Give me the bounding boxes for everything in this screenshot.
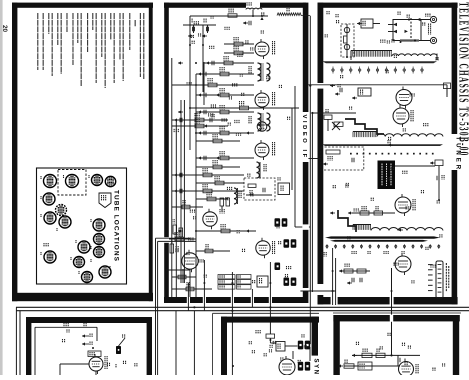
- tube V401 sync sep: [279, 356, 295, 378]
- tube location note (107): [44, 243, 48, 247]
- tube locations chart border: [37, 168, 127, 284]
- resistor R20 near right border: [444, 83, 451, 97]
- fine tuner plate lower: [330, 240, 428, 242]
- connector pair P1: [298, 341, 310, 350]
- VIDEO IF section border: [164, 3, 308, 303]
- capacitor C1 with ground: [243, 21, 251, 25]
- tube V103 3rd IF amp: [255, 140, 269, 160]
- tube location V9 6AW8: [94, 234, 105, 245]
- connector pair P2: [298, 362, 310, 371]
- coil L2 box: [357, 19, 380, 28]
- tube V106 video amp: [256, 238, 270, 258]
- arrow test point at coil L1: [260, 8, 289, 20]
- wire tube leads: [60, 364, 96, 375]
- sync clipper network: [276, 342, 298, 352]
- tuner corner labels: [327, 11, 338, 17]
- osc coil L1C wound section: [353, 225, 371, 230]
- horizontal section thin outline: [333, 312, 461, 314]
- tube location V11 5U8: [94, 247, 105, 258]
- tube V102 2nd IF amp: [255, 90, 269, 110]
- misc tuner grounds: [330, 84, 403, 232]
- horizontal box row 1: [352, 349, 420, 358]
- arrow feed +140V: [82, 334, 92, 338]
- wire heater into horizontal box: [390, 315, 393, 322]
- tube V105 audio output: [182, 250, 198, 272]
- component row 11 (resistor/capacitor network): [196, 126, 254, 135]
- component row 14 (resistor/capacitor network): [196, 160, 240, 169]
- TUNER section border: [318, 3, 458, 305]
- tube location crystal Y1: [105, 176, 115, 186]
- component row 19 (resistor/capacitor network): [196, 224, 256, 233]
- sync section thin outline: [213, 313, 319, 375]
- tube V104 sound IF: [203, 209, 217, 229]
- wire gutter bus left of VIDEO IF: [156, 238, 158, 375]
- svg-text:20: 20: [1, 25, 8, 33]
- component row 8 (resistor/capacitor network): [196, 105, 254, 114]
- capacitor C2 to ground: [188, 19, 195, 38]
- IF transformer T2: [249, 113, 270, 131]
- black terminal M3: [275, 263, 281, 271]
- AGC dashed box: [321, 147, 364, 170]
- scattered value labels bottom boxes: [62, 329, 444, 370]
- quadrature coil module Z1: [278, 183, 290, 195]
- tube location V7 4BQ7: [59, 216, 71, 228]
- test point connector pair M4: [284, 278, 297, 286]
- wire gap in border at y227: [302, 224, 309, 229]
- tuner part-number plate (black): [378, 161, 396, 190]
- component row 16 (resistor/capacitor network): [196, 176, 244, 185]
- component row 5 (resistor/capacitor network): [172, 78, 254, 87]
- wire gutter bus right of VIDEO IF: [292, 16, 314, 344]
- notes panel border frame: [12, 3, 153, 302]
- resistor R1 1K (top): [228, 9, 237, 18]
- component row 15 (resistor/capacitor network): [172, 168, 244, 177]
- sound takeoff dashed box: [244, 178, 275, 200]
- volume control R130: [170, 240, 178, 253]
- channel strip bar 1B: [322, 140, 443, 146]
- tube location V5 (dashed) 3DT6: [56, 205, 67, 216]
- channel labels under contacts: [352, 251, 404, 254]
- wire drops to bottom boxes: [176, 303, 270, 375]
- tube V102B triode section: [257, 122, 267, 132]
- component row 13 (resistor/capacitor network): [196, 151, 254, 160]
- tube location V3 3AU6: [92, 175, 103, 186]
- component row 7 (resistor/capacitor network): [190, 101, 299, 110]
- tube locations dashed sub-box: [58, 170, 86, 196]
- component row 3 (resistor/capacitor network): [204, 56, 254, 65]
- scattered value labels tuner: [325, 14, 442, 284]
- resistor R25: [430, 160, 443, 200]
- oscillator injection staircase wire: [345, 119, 384, 134]
- wire IF output from tuner to VIDEO IF: [308, 83, 447, 95]
- antenna terminal J1: [401, 16, 437, 22]
- junction dots sprinkled: [92, 15, 440, 367]
- audio output section border: [26, 317, 152, 375]
- bottom section outer rail (double line): [16, 307, 469, 375]
- oscillator staircase wire: [338, 210, 356, 232]
- tuner bottom border wire gaps: [331, 297, 394, 305]
- tube location V6 3CB6: [44, 212, 56, 224]
- component row 17 (resistor/capacitor network): [172, 184, 244, 193]
- tube location pointer label (hex): [99, 193, 111, 208]
- wire jogs through left border at y239: [156, 237, 197, 243]
- osc coil L1C loops: [371, 228, 443, 231]
- scattered value labels video IF: [174, 12, 291, 283]
- wire sync to connector: [293, 347, 310, 361]
- components in matching box: [344, 24, 350, 57]
- component row 10 (resistor/capacitor network): [172, 119, 228, 128]
- label tuner terminal guide: [446, 263, 448, 292]
- tube V203 oscillator: [395, 194, 411, 216]
- IF transformer T3: [257, 162, 267, 178]
- B+ bus wires: [172, 25, 204, 297]
- svg-text:VIDEO IF: VIDEO IF: [301, 115, 307, 160]
- 4.5MC trap module: [257, 276, 268, 287]
- component row 18 (resistor/capacitor network): [196, 192, 228, 201]
- sync section border: [221, 317, 319, 375]
- resistor R301 boxed: [88, 351, 101, 357]
- coil L1 top-center straddling border: [246, 2, 262, 16]
- fine tuning capacitor C25: [437, 175, 444, 180]
- antenna matching dashed box: [341, 24, 354, 57]
- components inside sound takeoff: [246, 184, 272, 195]
- wire heater drop to sync box: [391, 268, 393, 355]
- shield pin row: [332, 67, 423, 74]
- capacitor C401: [398, 355, 400, 366]
- junction dots on rail: [193, 306, 271, 312]
- test point connector pair M1: [275, 218, 288, 226]
- tube V301 audio output: [89, 354, 103, 374]
- wire AGC top feed: [190, 16, 268, 150]
- arrow feed to output: [82, 342, 92, 346]
- capacitor C3 to ground: [202, 19, 209, 38]
- svg-text:TELEVISION CHASSIS TS-530B-00: TELEVISION CHASSIS TS-530B-00: [456, 2, 469, 157]
- balun transformer T1A: [388, 12, 421, 43]
- tube location V8 5AT8: [93, 219, 105, 231]
- wire plate to R25: [395, 165, 435, 167]
- page edge shading: [0, 0, 3, 375]
- svg-text:SYN: SYN: [312, 359, 318, 376]
- tuner bottom-left components: [322, 248, 370, 305]
- component row 4 (resistor/capacitor network): [196, 67, 254, 76]
- black terminal in audio box: [116, 338, 125, 354]
- wires exiting VIDEO IF bottom: [188, 260, 270, 311]
- oscillator resistor row: [348, 206, 395, 215]
- audio box top wire: [35, 323, 97, 375]
- tube location V4 3BZ6: [43, 193, 55, 205]
- switch contact row: [326, 244, 440, 249]
- tube location V13 6CG7: [74, 257, 85, 268]
- decoupling capacitor cluster C110: [204, 114, 214, 128]
- horizontal box row 2: [338, 360, 400, 371]
- bottom border wire gaps: [187, 297, 272, 304]
- mixer input network: [324, 109, 343, 131]
- tube V202 mixer: [393, 105, 409, 127]
- RF coil L1B wound section: [353, 132, 377, 138]
- coil shield bar: [322, 61, 437, 63]
- component row 6 (resistor/capacitor network): [196, 88, 254, 97]
- wire mixer feed: [312, 112, 356, 114]
- component row 20 (resistor/capacitor network): [164, 232, 196, 241]
- antenna terminal J2: [400, 37, 437, 43]
- horizontal section border: [333, 315, 459, 375]
- label 300 OHM ANT: [429, 24, 431, 35]
- components in AGC box: [323, 150, 354, 166]
- component row 9 (resistor/capacitor network): [172, 113, 228, 122]
- wire grid bias: [183, 24, 216, 26]
- tube V204 osc section: [395, 253, 411, 275]
- tube V101 1st IF amp: [255, 39, 269, 59]
- tube location V1 3BZ6: [44, 175, 57, 188]
- component row 12 (resistor/capacitor network): [196, 134, 240, 143]
- notes text block (rotated service notes): [38, 13, 144, 88]
- coil L3 box: [358, 88, 371, 96]
- RF coil L1A wound section: [351, 51, 392, 57]
- contact dot row: [350, 153, 434, 155]
- tube location V15 6S4: [82, 272, 93, 283]
- RF coil L1A loops: [392, 54, 437, 56]
- additional RC rows lower left: [166, 200, 230, 297]
- tube location V2 3BZ6: [66, 175, 79, 188]
- alternate-value table: [218, 275, 251, 290]
- component row 2 (resistor/capacitor network): [224, 46, 254, 55]
- test point connector pair M2: [284, 239, 297, 247]
- fine tuner plate upper: [325, 236, 440, 238]
- wire B+ to tuner exit left: [300, 288, 335, 294]
- tube location V12 6BQ6: [44, 251, 56, 263]
- RF coupling spring line to tuner: [277, 13, 310, 16]
- tube location V14 pix tube socket: [99, 266, 111, 278]
- component row 1 (resistor/capacitor network): [224, 37, 254, 46]
- resistor stack by V104: [220, 198, 230, 214]
- terminal strip TS1: [428, 261, 443, 298]
- RF coil L1B loops: [377, 134, 443, 137]
- wire AGC line from VIDEO IF: [308, 158, 320, 160]
- tube V201 RF amp: [396, 87, 412, 109]
- svg-text:TUBE LOCATIONS: TUBE LOCATIONS: [113, 190, 120, 262]
- tube V402 horiz osc: [399, 359, 414, 380]
- sync input resistor R401: [256, 330, 276, 343]
- misc ground arrows in video IF: [178, 61, 251, 232]
- IF transformer T1: [249, 63, 270, 81]
- tube chart designator labels: [41, 175, 110, 274]
- tube location V10 3AW3: [78, 241, 90, 253]
- discriminator transformer T4: [234, 188, 241, 204]
- capacitor C20: [335, 84, 342, 96]
